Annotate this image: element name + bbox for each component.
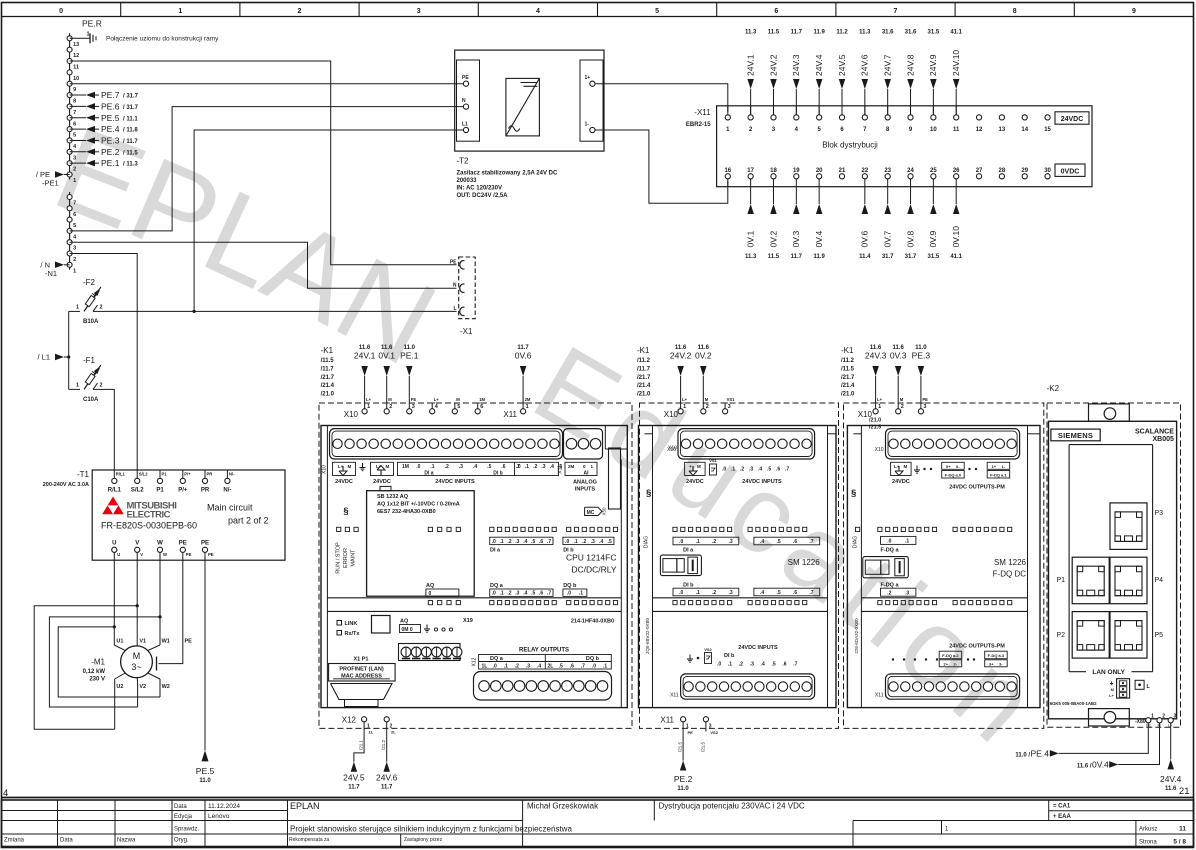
- wire T2 1+ to X11 t1: [595, 84, 728, 112]
- power terminal: [1111, 682, 1113, 684]
- svg-text:.2: .2: [507, 591, 511, 597]
- svg-text:/ 11.8: / 11.8: [123, 128, 138, 134]
- svg-text:PE.3: PE.3: [101, 135, 120, 145]
- svg-text:6: 6: [480, 404, 483, 410]
- svg-text:11.4: 11.4: [859, 254, 871, 260]
- svg-text:F-DQ a: F-DQ a: [881, 548, 900, 554]
- X11 terminal 17: [748, 174, 753, 179]
- svg-text:M: M: [133, 651, 141, 661]
- svg-text:-K1: -K1: [321, 346, 334, 355]
- RJ45 jack shape: [331, 684, 393, 700]
- svg-text:PR: PR: [201, 488, 210, 494]
- svg-text:8: 8: [1013, 8, 1017, 15]
- svg-text:13: 13: [999, 127, 1006, 133]
- svg-text:PE: PE: [201, 541, 209, 547]
- svg-text:.3: .3: [515, 539, 519, 545]
- svg-text:V: V: [135, 541, 139, 547]
- svg-text:DI a: DI a: [683, 548, 694, 554]
- arrow 0V.6: [522, 376, 524, 403]
- svg-text:S/L2: S/L2: [139, 472, 149, 477]
- arrow PE.2: [70, 151, 86, 153]
- top right notch: [604, 426, 606, 450]
- VS1 flag: [710, 464, 717, 475]
- Mitsubishi logo: [108, 497, 119, 506]
- arrow 0V.4: [818, 179, 820, 204]
- svg-text:PR: PR: [207, 472, 213, 477]
- arrow 24V.10: [955, 89, 957, 115]
- svg-text:.3: .3: [749, 467, 753, 473]
- wire X80.1 to PE.4: [1059, 723, 1149, 754]
- svg-text:0V.6: 0V.6: [515, 351, 532, 361]
- svg-text:.6: .6: [501, 464, 505, 470]
- svg-text:24VDC: 24VDC: [335, 479, 353, 485]
- svg-text:1: 1: [1151, 714, 1154, 720]
- svg-text:/21.0: /21.0: [321, 392, 335, 398]
- svg-text:/21.2: /21.2: [381, 739, 386, 750]
- svg-text:.1: .1: [430, 464, 434, 470]
- PLC module CPU 1214FC body: [321, 426, 627, 708]
- arrow 24V.4: [818, 89, 820, 115]
- pin 6 (1M): [475, 409, 480, 414]
- svg-text:Data: Data: [174, 804, 187, 810]
- svg-text:PE.4: PE.4: [1031, 749, 1050, 759]
- squares row 2: [428, 601, 432, 605]
- svg-text:V2: V2: [139, 684, 146, 690]
- svg-text:.6: .6: [539, 591, 543, 597]
- svg-text:N/-: N/-: [223, 488, 231, 494]
- svg-text:M: M: [1111, 688, 1114, 692]
- svg-text:ELECTRIC: ELECTRIC: [127, 510, 171, 521]
- arrow 0V.3: [897, 376, 899, 403]
- pin 1 (L+): [873, 409, 878, 414]
- svg-text:Blok dystrybucji: Blok dystrybucji: [822, 141, 878, 150]
- svg-text:11.6: 11.6: [870, 345, 882, 351]
- svg-text:PE.1: PE.1: [400, 351, 419, 361]
- svg-text:4: 4: [536, 8, 540, 15]
- svg-text:.2: .2: [582, 539, 586, 545]
- stub X11.3: [705, 722, 707, 732]
- svg-text:5: 5: [655, 8, 659, 15]
- svg-text:RELAY OUTPUTS: RELAY OUTPUTS: [519, 648, 569, 654]
- wire T2 1- to X11 t16: [595, 130, 728, 203]
- watermark EPLAN Education: [5, 202, 1196, 850]
- svg-text:11.3: 11.3: [745, 30, 757, 36]
- svg-text:Sprawdz.: Sprawdz.: [174, 827, 199, 833]
- svg-text:1+: 1+: [992, 464, 997, 469]
- motor -M1: [121, 646, 153, 678]
- svg-text:11.6: 11.6: [675, 345, 687, 351]
- svg-text:31.7: 31.7: [882, 254, 894, 260]
- wire X12.2 to 24V.6: [386, 722, 388, 762]
- svg-text:31.6: 31.6: [882, 30, 894, 36]
- svg-text:F-DQ a.1: F-DQ a.1: [990, 472, 1007, 477]
- PROFINET MAC box: [329, 664, 396, 682]
- svg-text:ANALOG: ANALOG: [573, 480, 597, 486]
- svg-text:24V.8: 24V.8: [905, 54, 915, 76]
- svg-text:11.9: 11.9: [813, 254, 825, 260]
- svg-text:11.7: 11.7: [517, 345, 529, 351]
- svg-text:2: 2: [73, 167, 76, 173]
- svg-text:/11.2: /11.2: [841, 358, 855, 364]
- T1 bottom pin V: [135, 547, 140, 552]
- svg-text:P4: P4: [1155, 577, 1164, 584]
- svg-text:Zasilacz stabilizowany 2,5A 24: Zasilacz stabilizowany 2,5A 24V DC: [457, 171, 558, 177]
- svg-text:-T1: -T1: [77, 470, 90, 479]
- svg-text:2M: 2M: [525, 397, 531, 402]
- port P5: [1110, 612, 1147, 659]
- PLC module SM 1226 F-DQ body: [847, 426, 1040, 708]
- svg-text:.4: .4: [599, 539, 603, 545]
- arrow PE.1: [408, 376, 410, 403]
- svg-text:-K1: -K1: [637, 346, 650, 355]
- svg-text:.4: .4: [523, 591, 527, 597]
- svg-text:15: 15: [1044, 127, 1051, 133]
- svg-text:24V.4: 24V.4: [1160, 774, 1182, 784]
- wire PE.R t9 to T2 PE: [70, 83, 464, 85]
- svg-text:21: 21: [839, 168, 846, 174]
- port area: [1069, 444, 1153, 446]
- svg-text:2: 2: [100, 382, 103, 388]
- svg-text:Oryg.: Oryg.: [174, 838, 189, 844]
- X11 terminal 29: [1022, 174, 1027, 179]
- X11 terminal 3: [771, 115, 776, 120]
- svg-text:W2: W2: [162, 684, 170, 690]
- arrow PE.1: [70, 162, 86, 164]
- svg-text:.1: .1: [905, 539, 909, 545]
- arrow 24V.5: [841, 89, 843, 115]
- svg-text:7: 7: [894, 8, 898, 15]
- svg-text:0: 0: [59, 8, 63, 15]
- svg-text:1L: 1L: [369, 730, 374, 735]
- svg-text:.5: .5: [772, 662, 776, 668]
- memory card icon MC: [585, 507, 602, 515]
- svg-text:-M1: -M1: [91, 658, 105, 667]
- svg-text:24V.10: 24V.10: [951, 50, 961, 76]
- LAN ONLY bracket: [1069, 671, 1086, 673]
- svg-text:.2: .2: [507, 539, 511, 545]
- svg-text:-T2: -T2: [457, 157, 470, 166]
- port P3: [1110, 503, 1147, 550]
- svg-text:5: 5: [457, 404, 460, 410]
- svg-text:.0: .0: [492, 539, 496, 545]
- svg-text:24V.5: 24V.5: [837, 54, 847, 76]
- SM1226 top connector: [678, 429, 815, 459]
- svg-text:IN: AC 120/230V: IN: AC 120/230V: [457, 186, 502, 192]
- svg-text:.1: .1: [574, 539, 578, 545]
- svg-text:6GK5 005-0BA00-1AB2: 6GK5 005-0BA00-1AB2: [1050, 701, 1097, 706]
- svg-text:2Q6-6BV32-0XB0: 2Q6-6BV32-0XB0: [645, 617, 650, 654]
- svg-text:11.6 /: 11.6 /: [1077, 763, 1092, 769]
- svg-text:0V.2: 0V.2: [695, 351, 712, 361]
- svg-text:X10: X10: [668, 446, 677, 452]
- svg-text:24V.6: 24V.6: [376, 773, 398, 783]
- svg-text:M: M: [386, 464, 390, 469]
- svg-text:230 V: 230 V: [89, 677, 105, 683]
- svg-text:11.0: 11.0: [677, 786, 689, 792]
- svg-text:MC: MC: [587, 510, 595, 516]
- inverter -T1 box: [92, 470, 285, 560]
- svg-text:.3: .3: [591, 539, 595, 545]
- svg-text:N: N: [453, 283, 457, 289]
- svg-text:.1: .1: [499, 591, 503, 597]
- svg-text:.3: .3: [459, 464, 463, 470]
- svg-text:.5: .5: [559, 664, 563, 670]
- svg-text:X12: X12: [342, 716, 357, 725]
- svg-text:.2: .2: [887, 590, 891, 596]
- svg-text:2: 2: [100, 304, 103, 310]
- pin 2 (M): [701, 409, 706, 414]
- svg-text:W: W: [157, 541, 163, 547]
- svg-text:C10A: C10A: [83, 397, 99, 403]
- svg-text:L1: L1: [462, 122, 468, 128]
- svg-text:1: 1: [878, 404, 881, 410]
- svg-text:26: 26: [953, 168, 960, 174]
- svg-text:/21.7: /21.7: [841, 375, 855, 381]
- SM1226 24VDC box: [685, 462, 706, 475]
- svg-text:P1: P1: [162, 472, 168, 477]
- svg-text:.6: .6: [539, 539, 543, 545]
- svg-text:.5: .5: [531, 539, 535, 545]
- svg-text:part 2 of 2: part 2 of 2: [228, 516, 269, 526]
- svg-text:= CA1: = CA1: [1053, 804, 1071, 810]
- svg-text:L: L: [453, 306, 456, 312]
- wire N1 t2 to T1 S/L2: [70, 254, 138, 471]
- svg-text:7: 7: [73, 201, 76, 207]
- svg-text:X10: X10: [664, 410, 679, 419]
- svg-text:/21.0: /21.0: [869, 418, 881, 424]
- arrow 0V.8: [910, 179, 912, 204]
- svg-text:214-1HF40-0XB0: 214-1HF40-0XB0: [571, 619, 614, 625]
- PLC module SM 1226 body: [639, 426, 837, 708]
- svg-text:.1: .1: [525, 464, 529, 470]
- svg-text:Nazwa: Nazwa: [117, 838, 136, 844]
- svg-text:11: 11: [1179, 826, 1186, 833]
- svg-text:6: 6: [774, 8, 778, 15]
- circuit breaker -F2: [84, 292, 98, 312]
- svg-text:DQ a: DQ a: [490, 583, 504, 589]
- svg-text:.2: .2: [533, 464, 537, 470]
- svg-text:Zastąpiony przez: Zastąpiony przez: [404, 837, 443, 843]
- svg-text:P2: P2: [1057, 632, 1066, 639]
- svg-text:X11: X11: [670, 692, 679, 698]
- arrow PE.7: [70, 94, 86, 96]
- svg-text:1: 1: [367, 404, 370, 410]
- svg-text:/ 11.5: / 11.5: [123, 150, 138, 156]
- svg-text:/11.2: /11.2: [637, 358, 651, 364]
- SB 1232 AQ board: [380, 486, 391, 490]
- svg-text:4: 4: [3, 788, 8, 799]
- svg-text:3~: 3~: [131, 662, 141, 672]
- svg-text:11.6: 11.6: [1165, 786, 1177, 792]
- svg-text:1: 1: [76, 304, 79, 310]
- svg-text:7: 7: [73, 110, 76, 116]
- arrow 0V.2: [772, 179, 774, 204]
- svg-text:8: 8: [73, 99, 76, 105]
- svg-text:.1: .1: [731, 467, 735, 473]
- svg-text:.7: .7: [581, 664, 585, 670]
- svg-text:PE: PE: [186, 552, 192, 557]
- CPU analog connector: [564, 429, 603, 459]
- svg-text:9: 9: [73, 87, 76, 93]
- svg-text:LINK: LINK: [345, 621, 358, 627]
- SCALANCE body: [1049, 421, 1177, 719]
- svg-text:DI b: DI b: [724, 653, 735, 659]
- svg-text:M: M: [705, 397, 709, 402]
- wire N1 t4 to T2 N: [70, 107, 464, 231]
- svg-text:INPUTS: INPUTS: [575, 487, 596, 493]
- svg-text:.6: .6: [776, 467, 780, 473]
- svg-text:11.7: 11.7: [381, 785, 393, 791]
- svg-text:1M: 1M: [479, 397, 485, 402]
- pin 4 (L+): [430, 409, 435, 414]
- wire T1 PE to motor PE: [159, 560, 183, 663]
- X11 terminal 20: [817, 174, 822, 179]
- svg-text:Strona: Strona: [1139, 840, 1157, 846]
- svg-text:AQ: AQ: [400, 619, 409, 625]
- screw terminals: [399, 644, 461, 661]
- svg-text:/21.0: /21.0: [637, 392, 651, 398]
- svg-text:Main circuit: Main circuit: [207, 503, 253, 513]
- svg-text:23: 23: [884, 168, 891, 174]
- svg-text:22: 22: [861, 168, 868, 174]
- svg-text:11.6: 11.6: [359, 345, 371, 351]
- X11 terminal 16: [725, 174, 730, 179]
- svg-text:24V.6: 24V.6: [860, 54, 870, 76]
- svg-text:0V.3: 0V.3: [890, 351, 907, 361]
- squares row 1: [856, 527, 860, 531]
- arrow 0V.10: [955, 179, 957, 204]
- svg-text:11: 11: [953, 127, 960, 133]
- svg-text:/21.5: /21.5: [700, 741, 705, 752]
- svg-text:2M: 2M: [568, 464, 575, 469]
- svg-text:24: 24: [907, 168, 914, 174]
- arrow 24V.6: [864, 89, 866, 115]
- distribution block -X11: [717, 106, 1092, 187]
- svg-text:.3: .3: [728, 590, 732, 596]
- pin 2 (M): [896, 409, 901, 414]
- svg-text:10: 10: [930, 127, 937, 133]
- T1 pin P/+: [180, 478, 185, 483]
- dashed enclosure -K1 (CPU): [319, 403, 632, 728]
- svg-text:PE.6: PE.6: [101, 101, 120, 111]
- X11 terminal 27: [976, 174, 981, 179]
- svg-text:/21.4: /21.4: [321, 383, 335, 389]
- wire T1 W to motor: [159, 560, 161, 645]
- svg-text:.2: .2: [740, 467, 744, 473]
- svg-text:24VDC OUTPUTS-PM: 24VDC OUTPUTS-PM: [949, 485, 1005, 491]
- svg-text:X10: X10: [875, 447, 884, 453]
- X11 terminal 5: [817, 115, 822, 120]
- svg-text:25: 25: [930, 168, 937, 174]
- svg-text:2: 2: [706, 404, 709, 410]
- svg-text:0V.1: 0V.1: [378, 351, 395, 361]
- svg-text:Data: Data: [60, 838, 73, 844]
- svg-text:AI: AI: [584, 471, 590, 477]
- svg-text:.1: .1: [504, 664, 508, 670]
- svg-text:6ES7 232-4HA30-0XB0: 6ES7 232-4HA30-0XB0: [377, 509, 436, 515]
- svg-text:U: U: [112, 541, 116, 547]
- CPU top terminal connector: [330, 429, 563, 459]
- svg-text:.0: .0: [679, 539, 683, 545]
- svg-text:/ 11.3: / 11.3: [123, 162, 138, 168]
- svg-text:DQ a: DQ a: [490, 656, 504, 662]
- svg-text:PE: PE: [179, 541, 187, 547]
- svg-text:3: 3: [73, 246, 76, 252]
- svg-text:/21.7: /21.7: [637, 375, 651, 381]
- svg-text:.6: .6: [782, 662, 786, 668]
- svg-text:11.0: 11.0: [199, 778, 211, 784]
- arrow PE.5: [70, 117, 86, 119]
- svg-text:11.6: 11.6: [893, 345, 905, 351]
- svg-text:.2: .2: [712, 590, 716, 596]
- L led box: [1135, 680, 1144, 689]
- svg-text:X1 P1: X1 P1: [354, 657, 369, 663]
- svg-text:PE.4: PE.4: [101, 124, 120, 134]
- svg-text:PE.7: PE.7: [101, 90, 120, 100]
- svg-text:PE.5: PE.5: [101, 113, 120, 123]
- svg-text:Rekompensata za: Rekompensata za: [289, 837, 330, 843]
- svg-text:X19: X19: [463, 618, 473, 624]
- svg-text:PE: PE: [462, 75, 469, 81]
- svg-text:13: 13: [73, 42, 79, 48]
- svg-text:S/L2: S/L2: [131, 488, 144, 494]
- svg-text:+: +: [689, 464, 692, 469]
- arrow 0V.9: [932, 179, 934, 204]
- svg-text:/21.0: /21.0: [841, 392, 855, 398]
- svg-text:PE.5: PE.5: [196, 766, 215, 776]
- svg-text:/ 11.1: / 11.1: [123, 116, 138, 122]
- X11 terminal 26: [954, 174, 959, 179]
- svg-text:DI b: DI b: [493, 471, 502, 477]
- svg-text:2+: 2+: [944, 661, 949, 666]
- svg-text:.6: .6: [793, 590, 797, 596]
- svg-text:200033: 200033: [457, 178, 478, 184]
- F-DQ a rows: [881, 536, 916, 544]
- svg-text:LAN ONLY: LAN ONLY: [1092, 669, 1125, 676]
- svg-text:1M: 1M: [402, 464, 409, 470]
- X11 terminal 8: [885, 115, 890, 120]
- svg-text:F-DQ a: F-DQ a: [881, 583, 900, 589]
- svg-text:27: 27: [976, 168, 983, 174]
- wire branch to T2 L1: [194, 130, 464, 311]
- svg-text:.4: .4: [523, 539, 527, 545]
- pin 3 (VS1): [723, 409, 728, 414]
- breaker F1 input wire: [69, 388, 80, 390]
- svg-text:+ EAA: + EAA: [1053, 814, 1072, 820]
- svg-text:11.12.2024: 11.12.2024: [208, 803, 240, 810]
- svg-text:16: 16: [724, 168, 731, 174]
- svg-text:3: 3: [1174, 714, 1177, 720]
- svg-text:5 / 8: 5 / 8: [1173, 839, 1186, 846]
- SM F-DQ top connector: [886, 429, 1020, 459]
- converter symbol: [506, 78, 540, 135]
- svg-text:11.7: 11.7: [791, 30, 803, 36]
- svg-text:24VDC: 24VDC: [1061, 116, 1084, 123]
- svg-text:5: 5: [73, 223, 76, 229]
- svg-text:P/+: P/+: [178, 488, 188, 494]
- svg-text:24VDC: 24VDC: [686, 479, 704, 485]
- svg-text:-X11: -X11: [694, 108, 711, 117]
- svg-text:.5: .5: [487, 464, 491, 470]
- svg-text:VS2: VS2: [710, 730, 718, 735]
- svg-text:.3: .3: [905, 590, 909, 596]
- port P2: [1072, 612, 1109, 659]
- motor loop 2: [49, 617, 160, 707]
- svg-text:.5: .5: [767, 467, 771, 473]
- arrow PE.6: [70, 105, 86, 107]
- arrow 0V.1: [750, 179, 752, 204]
- X11 terminal 12: [976, 115, 981, 120]
